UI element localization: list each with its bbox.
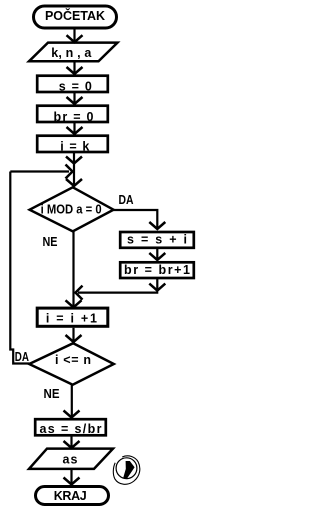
wire arrow br=0 to i=k xyxy=(67,123,83,134)
svg-text:DA: DA xyxy=(15,350,29,364)
process as = s/br xyxy=(35,419,106,436)
svg-text:s = 0: s = 0 xyxy=(59,79,92,93)
svg-text:s = s + i: s = s + i xyxy=(127,232,187,246)
svg-text:br = 0: br = 0 xyxy=(54,110,94,124)
wire arrow s=s+i to br=br+1 xyxy=(149,249,165,260)
process s = s + i xyxy=(120,232,194,248)
wire main line decision1 NE to i=i+1 xyxy=(66,231,82,307)
svg-text:i <= n: i <= n xyxy=(55,353,91,367)
terminator POCETAK xyxy=(34,6,117,28)
wire arrow i=i+1 to decision 2 xyxy=(66,328,82,342)
logo watermark xyxy=(113,456,140,484)
svg-text:POČETAK: POČETAK xyxy=(45,8,105,23)
wire junction to decision 1 xyxy=(66,164,82,186)
output parallelogram as xyxy=(29,449,113,469)
process br = 0 xyxy=(37,106,108,124)
svg-text:NE: NE xyxy=(43,235,58,249)
process s = 0 xyxy=(37,76,108,94)
decision 2 i <= n xyxy=(29,343,114,385)
wire DA branch: diamond right tip to s=s+i xyxy=(114,210,166,229)
svg-text:NE: NE xyxy=(44,387,60,401)
svg-text:DA: DA xyxy=(119,193,134,207)
wire loop-back horizontal into junction (arrow right) xyxy=(10,165,72,179)
svg-text:as = s/br: as = s/br xyxy=(40,422,102,436)
wire arrow stadium to input xyxy=(67,30,83,43)
input parallelogram k,n,a xyxy=(29,43,118,62)
svg-text:i MOD a = 0: i MOD a = 0 xyxy=(41,202,102,216)
wire arrow input to s=0 xyxy=(67,62,83,75)
process br = br+1 xyxy=(120,262,194,278)
svg-text:i = k: i = k xyxy=(60,140,89,154)
wire DA loop: diamond2 left tip, up the left side, to junction xyxy=(10,172,29,364)
decision 1 i MOD a = 0 xyxy=(30,187,114,231)
wire arrow s=0 to br=0 xyxy=(67,93,83,104)
svg-text:k, n , a: k, n , a xyxy=(51,46,92,60)
terminator KRAJ xyxy=(36,487,109,505)
wire arrow output to KRAJ xyxy=(64,469,80,485)
svg-text:i = i +1: i = i +1 xyxy=(46,312,97,326)
process i = k xyxy=(37,136,108,154)
wire arrow i=k to junction xyxy=(66,153,82,164)
wire arrow as=s/br to output xyxy=(64,437,80,449)
svg-text:as: as xyxy=(63,453,78,467)
wire decision2 NE to as=s/br xyxy=(64,385,80,418)
wire br=br+1 down to merge line (arrow down) xyxy=(149,279,165,291)
wire merge line right-branch to main line (arrow left) xyxy=(76,286,159,300)
svg-text:KRAJ: KRAJ xyxy=(54,489,87,503)
process i = i +1 xyxy=(37,308,108,326)
